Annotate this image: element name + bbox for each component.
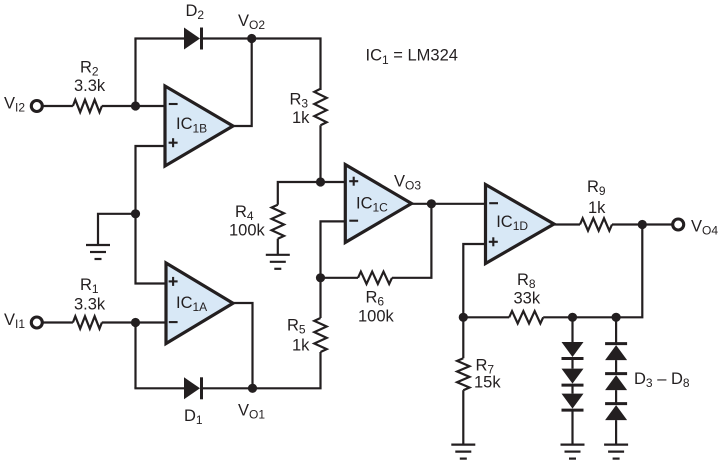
wire to D2 anode xyxy=(134,37,184,39)
ground under D8 xyxy=(604,445,628,459)
IC1C noninverting input marker xyxy=(349,177,358,186)
IC1B noninverting input marker xyxy=(169,138,178,147)
op-amp IC1C body xyxy=(345,165,411,243)
svg-text:100k: 100k xyxy=(229,222,266,240)
svg-text:R5: R5 xyxy=(287,317,306,337)
wire IC1D noninverting input to node F xyxy=(463,244,485,317)
diode D3 xyxy=(562,342,584,359)
wire R5 top to node E xyxy=(319,278,321,318)
wire R6 to VO3 node xyxy=(392,204,431,278)
resistor R6 xyxy=(358,272,392,284)
wire D6 to D7 xyxy=(615,360,617,374)
svg-text:R2: R2 xyxy=(80,59,99,79)
diode D6 xyxy=(605,344,627,361)
terminal VI1 xyxy=(31,317,42,328)
wire D8 to ground xyxy=(615,420,617,445)
svg-text:R6: R6 xyxy=(366,289,385,309)
wire node F to R8 xyxy=(463,316,509,318)
IC1A inverting input marker xyxy=(169,321,178,323)
wire node I to diode D6 xyxy=(615,317,617,343)
svg-text:15k: 15k xyxy=(474,374,501,392)
svg-text:D1: D1 xyxy=(184,407,203,427)
node VO3 junction xyxy=(427,199,436,208)
wire IC1A output down to VO1 xyxy=(233,303,253,388)
wire VI1 to R1 xyxy=(42,321,73,323)
node F junction (IC1D+/R7/R8) xyxy=(459,313,468,322)
op-amp IC1D body xyxy=(486,185,555,264)
svg-text:3.3k: 3.3k xyxy=(74,296,106,314)
wire IC1D output to R9 xyxy=(554,223,580,225)
wire node E to R6 xyxy=(321,277,359,279)
svg-text:1k: 1k xyxy=(292,337,310,355)
terminal VI2 xyxy=(31,101,42,112)
diode D2 xyxy=(184,28,202,50)
wire node B to IC1A noninverting input xyxy=(136,214,167,284)
resistor R3 xyxy=(314,89,326,126)
node VO2 junction xyxy=(247,34,256,43)
wire D4 to D5 xyxy=(571,385,573,394)
resistor R1 xyxy=(73,316,102,328)
ground under R7 xyxy=(451,445,475,459)
svg-text:1k: 1k xyxy=(588,199,606,217)
wire node H to node I xyxy=(573,316,617,318)
svg-text:IC1 = LM324: IC1 = LM324 xyxy=(366,47,458,68)
wire VI2 to R2 xyxy=(42,105,73,107)
wire to D1 anode xyxy=(134,387,184,389)
svg-text:R9: R9 xyxy=(587,178,606,198)
wire node B to ground xyxy=(98,214,136,245)
resistor R7 xyxy=(457,358,469,390)
ground under D5 xyxy=(561,445,585,459)
wire node C to IC1C noninverting input xyxy=(321,181,346,183)
node G junction (R9/VO4/feedback) xyxy=(638,220,647,229)
svg-text:3.3k: 3.3k xyxy=(74,77,106,95)
svg-text:100k: 100k xyxy=(358,308,395,326)
diode D7 xyxy=(605,374,627,391)
svg-text:VO2: VO2 xyxy=(238,12,265,32)
wire node A up to D2 line xyxy=(134,39,136,107)
svg-text:VI1: VI1 xyxy=(4,311,25,331)
wire node G to terminal VO4 xyxy=(642,223,672,225)
wire node C to R4 xyxy=(278,182,321,205)
svg-text:VO4: VO4 xyxy=(691,218,718,238)
resistor R5 xyxy=(314,318,326,352)
IC1B inverting input marker xyxy=(169,103,178,105)
wire R7 to ground xyxy=(462,390,464,444)
diode D1 xyxy=(184,377,202,399)
wire VO2 to R3 top xyxy=(252,39,321,91)
svg-text:VO1: VO1 xyxy=(238,402,265,422)
wire node F to R7 xyxy=(462,317,464,358)
resistor R2 xyxy=(73,100,102,112)
svg-text:R1: R1 xyxy=(80,276,99,296)
diode D8 xyxy=(605,404,627,421)
svg-text:D3 – D8: D3 – D8 xyxy=(634,370,690,390)
node B junction (IC1B+/gnd/IC1A+) xyxy=(131,209,140,218)
IC1A noninverting input marker xyxy=(169,277,178,286)
svg-text:33k: 33k xyxy=(514,290,541,308)
op-amp IC1B body xyxy=(165,86,233,166)
wire VO3 to IC1D inverting input xyxy=(431,203,485,205)
node D junction (R1/D1/IC1A-) xyxy=(131,318,140,327)
node C junction (R3/R4/IC1C+) xyxy=(316,177,325,186)
wire node D down to D1 line xyxy=(134,323,136,389)
resistor R8 xyxy=(509,311,543,323)
wire D2 cathode to node VO2 xyxy=(202,37,252,39)
wire node G down to R8 line xyxy=(616,225,642,318)
ground (left) xyxy=(86,245,110,259)
svg-text:R3: R3 xyxy=(290,91,309,111)
node I junction (diode string D6-D8) xyxy=(612,313,621,322)
wire R3 to node C xyxy=(319,125,321,182)
diode D5 xyxy=(562,394,584,411)
node A junction (R2/D2/IC1B-) xyxy=(131,101,140,110)
terminal VO4 xyxy=(673,219,684,230)
wire IC1C inverting input to node E xyxy=(321,221,346,277)
node VO1 junction xyxy=(248,384,257,393)
svg-text:VO3: VO3 xyxy=(394,173,421,193)
IC1D noninverting input marker xyxy=(489,237,498,246)
wire R4 to ground xyxy=(277,239,279,255)
wire IC1C output to VO3 node xyxy=(412,203,432,205)
wire R2 to IC1B inverting input xyxy=(102,105,165,107)
IC1C inverting input marker xyxy=(349,220,358,222)
wire D1 cathode to node VO1 xyxy=(202,387,253,389)
wire IC1B output up to VO2 xyxy=(233,39,252,127)
svg-text:D2: D2 xyxy=(186,2,205,22)
wire IC1B noninverting input to node B xyxy=(136,146,166,214)
wire D3 to D4 xyxy=(571,359,573,369)
wire node H to diode D3 xyxy=(571,317,573,342)
svg-text:VI2: VI2 xyxy=(4,95,25,115)
svg-text:1k: 1k xyxy=(292,109,310,127)
wire D5 to ground xyxy=(571,410,573,445)
wire R9 to node G xyxy=(612,223,642,225)
svg-text:R4: R4 xyxy=(235,203,254,223)
IC1D inverting input marker xyxy=(489,202,498,204)
wire R8 to node H xyxy=(543,316,572,318)
resistor R4 xyxy=(272,205,284,239)
wire VO1 to R5 bottom xyxy=(253,352,321,388)
wire D7 to D8 xyxy=(615,390,617,404)
ground under R4 xyxy=(266,255,290,269)
op-amp IC1A body xyxy=(166,263,233,344)
node H junction (diode string D3-D5) xyxy=(568,313,577,322)
svg-text:R8: R8 xyxy=(517,271,536,291)
resistor R9 xyxy=(580,218,612,230)
diode D4 xyxy=(562,369,584,386)
wire R1 to IC1A inverting input xyxy=(102,321,166,323)
node E junction (R5/R6/IC1C-) xyxy=(316,273,325,282)
